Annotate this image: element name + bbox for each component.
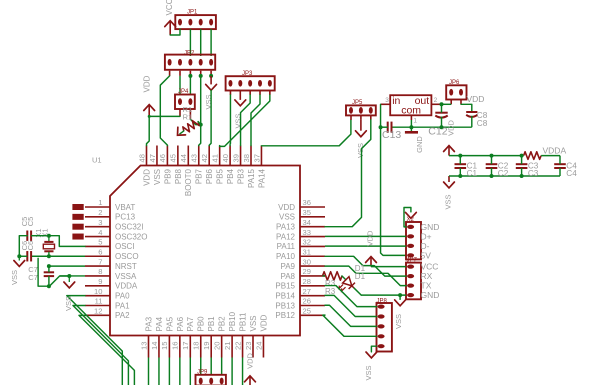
pin header JP8 (5-pin) body <box>377 303 392 352</box>
wire JP3 pin5 to U1 pin41 <box>220 95 270 146</box>
U1 pin 4 (OSC32O) stub + number + name <box>85 236 110 238</box>
svg-text:JP4: JP4 <box>178 89 189 95</box>
U1 pin 31 (PA10) stub + number + name <box>300 255 325 257</box>
resistor R1 (BOOT0 pulldown, tilted) <box>183 121 199 132</box>
svg-text:VDDA: VDDA <box>115 282 138 291</box>
jumper header JP4 (2-pin, BOOT select) body <box>175 95 195 110</box>
svg-text:34: 34 <box>303 218 311 227</box>
svg-text:5V: 5V <box>421 250 432 260</box>
svg-text:PB9: PB9 <box>163 168 172 184</box>
svg-text:11: 11 <box>95 297 103 306</box>
svg-text:PB8: PB8 <box>174 168 183 184</box>
junction OSCI / X1 / C5 <box>47 234 51 238</box>
U1 pin 30 (PA9) stub + number + name <box>300 265 325 267</box>
VDDA rail after L1 to C4 <box>541 155 560 157</box>
junction on JP2 pin5 net <box>209 74 213 78</box>
svg-text:C1: C1 <box>467 169 478 178</box>
junction com/ground rail <box>409 125 413 129</box>
U1 pin 20 (PB2) stub + number + name <box>221 336 223 358</box>
U1 pin 37 (PA14) stub + number + name <box>260 146 262 166</box>
svg-text:PA14: PA14 <box>257 168 266 188</box>
svg-text:GND: GND <box>415 136 424 153</box>
capacitor C7 <box>44 271 54 273</box>
wire VDD arrow to JP7 VCC <box>371 266 406 268</box>
svg-text:GND: GND <box>421 290 440 300</box>
svg-text:44: 44 <box>179 154 188 162</box>
U1 pin 42 (PB6) stub + number + name <box>208 146 210 166</box>
svg-text:VSS: VSS <box>356 143 365 158</box>
VDD supply arrow bottom <box>245 376 256 382</box>
svg-text:41: 41 <box>210 154 219 162</box>
wire JP3 pin3 to U1 pin39 <box>241 95 251 146</box>
VSS ground arrow at filter bank <box>444 182 455 188</box>
ground rail under regulator <box>392 126 472 128</box>
junction NRST / C7 <box>47 264 51 268</box>
U1 pin 24 (VDD) stub + number + name <box>262 336 264 358</box>
pin header JP3 (5-pin) body <box>226 76 275 90</box>
jumper header JP6 (2-pin, VDD select) body <box>446 85 466 99</box>
svg-text:12: 12 <box>94 307 102 316</box>
svg-text:OSC32O: OSC32O <box>115 232 147 241</box>
wire U1 pin32 (PA11) to USB D- <box>325 245 406 247</box>
svg-text:JP6: JP6 <box>449 80 460 86</box>
svg-text:37: 37 <box>252 154 261 162</box>
svg-text:7: 7 <box>98 257 102 266</box>
wire JP1 pin3 - JP2 pin4 <box>200 29 202 56</box>
U1 pin 21 (PB10) stub + number + name <box>231 336 233 358</box>
svg-text:PA3: PA3 <box>144 316 153 331</box>
svg-text:PA13: PA13 <box>276 223 296 232</box>
svg-text:PB12: PB12 <box>275 311 295 320</box>
svg-text:19: 19 <box>202 342 211 350</box>
svg-text:PB10: PB10 <box>228 311 237 331</box>
svg-text:JP9: JP9 <box>197 370 208 376</box>
U1 pin 3 (OSC32I) stub + number + name <box>85 226 110 228</box>
U1 pin 35 (VSS) stub + number + name <box>300 216 325 218</box>
svg-text:VSS: VSS <box>443 194 452 209</box>
junction crystal / OSCO <box>47 254 51 258</box>
U1 pin 38 (PA15) stub + number + name <box>250 146 252 166</box>
svg-text:21: 21 <box>223 342 232 350</box>
svg-text:VSS: VSS <box>10 270 19 285</box>
svg-text:VDD: VDD <box>467 94 485 104</box>
capacitor C13 (input cap) <box>387 122 389 133</box>
capacitor C8 <box>466 111 477 113</box>
U1 pin 40 (PB4) stub + number + name <box>229 146 231 166</box>
C12 bottom lead <box>441 117 443 128</box>
JP6 pin leads <box>450 100 452 105</box>
svg-text:VCC: VCC <box>421 262 439 272</box>
svg-text:VSS: VSS <box>249 315 258 331</box>
svg-text:PB14: PB14 <box>275 291 295 300</box>
svg-text:PA12: PA12 <box>276 232 296 241</box>
wires U1 pins 18-20 into bottom header JP9 <box>200 358 202 375</box>
svg-text:27: 27 <box>303 287 311 296</box>
wire U1 pin31 (PA10/RX) to JP7 RX <box>325 256 406 276</box>
U1 pin 36 (VDD) stub + number + name <box>300 206 325 208</box>
VCC supply arrow <box>165 21 176 27</box>
U1 pin 46 (PB9) stub + number + name <box>166 146 168 166</box>
U1 pin 43 (PB7) stub + number + name <box>198 146 200 166</box>
svg-text:23: 23 <box>244 342 253 350</box>
GND symbol bar <box>405 131 418 134</box>
wire JP2 pin2 to jumper JP4 pin1 <box>179 76 181 95</box>
svg-text:C4: C4 <box>566 169 577 178</box>
U1 pin 25 (PB12) stub + number + name <box>300 314 325 316</box>
svg-text:24: 24 <box>254 342 263 350</box>
svg-text:VDD: VDD <box>278 203 295 212</box>
solid pad marks on U1 pins 1-4 <box>73 205 83 210</box>
svg-text:D1: D1 <box>355 272 366 281</box>
wire VCC to JP1 pin 1 <box>170 29 180 35</box>
wire U1 pin26 (PB13) to JP8 pin3 <box>325 305 377 326</box>
junction VSSA <box>67 274 71 278</box>
C2 bottom junction <box>490 174 494 178</box>
svg-text:NRST: NRST <box>115 262 137 271</box>
svg-text:PB6: PB6 <box>205 168 214 184</box>
svg-text:VSS: VSS <box>64 296 73 311</box>
U1 pin 13 (PA3) stub + number + name <box>148 336 150 358</box>
svg-text:6: 6 <box>98 247 102 256</box>
svg-text:PA7: PA7 <box>186 316 195 331</box>
C3 top junction <box>520 154 524 158</box>
svg-text:39: 39 <box>231 154 240 162</box>
wire JP2 pin3 to jumper JP4 pin2 <box>189 76 191 95</box>
C6 left lead <box>19 255 27 257</box>
GND arrow above X2 <box>410 208 412 213</box>
wire U1 pin8 (VSSA) line <box>60 275 85 277</box>
wire JP4 pin2 to BOOT0 junction <box>190 119 200 124</box>
U1 pin 10 (PA0) stub + number + name <box>85 295 110 297</box>
wire U1 pin11 (PA1) down-left loop <box>73 306 128 385</box>
junction C7 bottom <box>47 284 51 288</box>
wire U1 pin10 (PA0) down-left loop <box>67 296 123 385</box>
U1 pin 29 (PA8) stub + number + name <box>300 275 325 277</box>
svg-text:16: 16 <box>171 342 180 350</box>
U1 pin 33 (PA12) stub + number + name <box>300 236 325 238</box>
svg-text:3: 3 <box>385 97 389 104</box>
svg-text:29: 29 <box>303 267 311 276</box>
svg-text:VSS: VSS <box>364 365 373 380</box>
junction C12 bottom / ground rail <box>440 125 444 129</box>
svg-text:18: 18 <box>192 342 201 350</box>
svg-text:10: 10 <box>94 287 102 296</box>
U1 pin 41 (PB5) stub + number + name <box>219 146 221 166</box>
crystal X1 <box>48 236 50 242</box>
junction C5/C6/VSS <box>17 254 21 258</box>
JP4 pin leads <box>179 109 181 116</box>
svg-text:3: 3 <box>98 218 102 227</box>
capacitor C3 <box>516 163 528 165</box>
wire U1 pin6 (OSCO) line <box>31 255 85 257</box>
svg-text:42: 42 <box>200 154 209 162</box>
svg-text:C13: C13 <box>382 129 401 141</box>
svg-text:48: 48 <box>137 154 146 162</box>
pin header JP9 (3-pin, bottom edge) body <box>196 375 226 385</box>
svg-text:VDD: VDD <box>365 230 374 246</box>
resistor R3 on U1 pin29 (PA8) <box>323 272 343 280</box>
svg-text:JP1: JP1 <box>187 10 198 16</box>
wire out node to JP6 pin1 <box>442 103 452 105</box>
U1 pin 47 (VSS) stub + number + name <box>156 146 158 166</box>
GND arrow below JP7 GND junction <box>399 295 401 300</box>
wire U1 pin12 (PA2) down-left loop <box>79 315 134 385</box>
svg-text:5: 5 <box>98 238 102 247</box>
VDD supply arrow at filter bank <box>444 146 455 152</box>
inductor/resistor L1 in VDDA rail <box>524 152 542 160</box>
wire LED D1 to GND line <box>354 288 361 295</box>
svg-text:36: 36 <box>303 198 311 207</box>
junction on JP2 pin4 net <box>199 74 203 78</box>
U1 pin 1 (VBAT) stub + number + name <box>85 206 110 208</box>
U1 pin 9 (VDDA) stub + number + name <box>85 285 110 287</box>
svg-text:PB1: PB1 <box>207 316 216 332</box>
svg-text:PB7: PB7 <box>195 168 204 184</box>
U1 pin 8 (VSSA) stub + number + name <box>85 275 110 277</box>
svg-text:4: 4 <box>98 228 102 237</box>
IC1 pin 3 (in) lead <box>381 103 391 105</box>
wire JP6 pin2 to VDD / C8 <box>461 104 472 111</box>
U1 pin 26 (PB13) stub + number + name <box>300 305 325 307</box>
svg-text:JP7: JP7 <box>407 257 418 263</box>
svg-text:TX: TX <box>421 281 432 291</box>
svg-text:PB15: PB15 <box>275 282 295 291</box>
svg-text:26: 26 <box>303 297 311 306</box>
svg-text:2: 2 <box>434 97 438 104</box>
U1 pin 5 (OSCI) stub + number + name <box>85 245 110 247</box>
svg-text:JP8: JP8 <box>377 298 388 304</box>
VSS ground arrow below JP8 <box>366 352 377 358</box>
U1 pin 28 (PB15) stub + number + name <box>300 285 325 287</box>
svg-text:C7: C7 <box>28 273 38 282</box>
wire JP1 pin2 - JP2 pin3 <box>189 29 191 56</box>
C3 bottom junction <box>520 174 524 178</box>
svg-text:PA1: PA1 <box>115 301 130 310</box>
U1 pin 18 (PB0) stub + number + name <box>200 336 202 358</box>
VSS ground arrow below JP2 pin5 <box>210 76 212 85</box>
svg-text:R1: R1 <box>183 112 193 121</box>
C12 top lead <box>441 104 443 112</box>
wire JP3 pin1 to U1 pin40 <box>229 95 231 146</box>
svg-text:47: 47 <box>148 154 157 162</box>
svg-text:8: 8 <box>98 267 102 276</box>
svg-text:PB3: PB3 <box>236 168 245 184</box>
svg-text:40: 40 <box>221 154 230 162</box>
U1 pin 17 (PA7) stub + number + name <box>189 336 191 358</box>
svg-text:VSS: VSS <box>153 169 162 185</box>
svg-text:32: 32 <box>303 238 311 247</box>
svg-text:PA5: PA5 <box>165 316 174 331</box>
svg-text:C6: C6 <box>26 241 35 251</box>
svg-text:PB4: PB4 <box>226 168 235 184</box>
junction on JP2 pin3 net <box>188 74 192 78</box>
IC1 pin 2 (out) lead <box>431 103 441 105</box>
wire com to GND symbol <box>410 120 412 131</box>
U1 pin 23 (VSS) stub + number + name <box>252 336 254 358</box>
svg-text:17: 17 <box>181 342 190 350</box>
svg-text:2: 2 <box>98 208 102 217</box>
svg-text:22: 22 <box>233 342 242 350</box>
svg-text:OSC32I: OSC32I <box>115 223 143 232</box>
svg-text:OSCO: OSCO <box>115 252 139 261</box>
wire U1 pin28 (PB15) to JP8 pin1 <box>325 286 377 307</box>
svg-text:VSSA: VSSA <box>115 272 137 281</box>
svg-text:14: 14 <box>150 342 159 350</box>
wire R1 to VSS arrow (diagonal) <box>180 131 184 134</box>
svg-text:20: 20 <box>212 342 221 350</box>
svg-text:U1: U1 <box>92 156 102 165</box>
pin header JP2 (5-pin) body <box>165 55 215 70</box>
wire VDD to JP4 pin1 and to U1 pin48 <box>147 116 181 145</box>
svg-text:PA0: PA0 <box>115 291 130 300</box>
svg-text:PA15: PA15 <box>247 168 256 188</box>
capacitor C1 <box>455 163 467 165</box>
svg-text:1: 1 <box>98 198 102 207</box>
svg-text:VCC: VCC <box>165 0 174 15</box>
svg-text:45: 45 <box>169 154 178 162</box>
wire U1 pin27 (PB14) to JP8 pin2 <box>325 295 377 316</box>
wire JP1 pin4 - JP2 pin5 <box>210 29 212 56</box>
wire JP7 GND line <box>361 294 406 296</box>
C2 top junction <box>490 154 494 158</box>
svg-text:PA8: PA8 <box>280 272 295 281</box>
C1 bottom junction <box>458 174 462 178</box>
U1 pin 44 (BOOT0) stub + number + name <box>187 146 189 166</box>
U1 pin 15 (PA5) stub + number + name <box>168 336 170 358</box>
VSS ground arrow below VSSA junction <box>68 276 70 282</box>
capacitor C2 <box>486 163 498 165</box>
JP3 pin leads <box>229 91 231 96</box>
wire JP5 pin3 (SWDIO) to U1 pin34 (PA13) <box>325 120 371 227</box>
svg-text:VDD: VDD <box>446 120 455 136</box>
svg-text:VDD: VDD <box>259 314 268 331</box>
microcontroller U1 (STM32, QFP48) body outline <box>110 166 300 336</box>
svg-text:VDDA: VDDA <box>543 145 567 155</box>
U1 pin 32 (PA11) stub + number + name <box>300 245 325 247</box>
svg-text:JP2: JP2 <box>184 51 195 57</box>
junction C13 / 5V line <box>379 125 383 129</box>
U1 pin 34 (PA13) stub + number + name <box>300 226 325 228</box>
svg-text:PC13: PC13 <box>115 213 136 222</box>
svg-text:13: 13 <box>139 342 148 350</box>
wire R3 to LED D1 <box>342 276 346 280</box>
U1 pin 6 (OSCO) stub + number + name <box>85 255 110 257</box>
VDDA top rail <box>449 155 524 157</box>
VSS ground arrow at crystal caps <box>18 256 20 260</box>
svg-text:35: 35 <box>303 208 311 217</box>
wire JP2 pin1 to U1 pin46 <box>160 76 169 146</box>
svg-text:PA2: PA2 <box>115 311 130 320</box>
svg-text:C8: C8 <box>477 119 488 128</box>
svg-text:GND: GND <box>421 222 440 232</box>
wire JP2 pin4 (BOOT0 net) to U1 pin43 <box>199 76 201 146</box>
VSS ground arrow below JP3 pin2 <box>239 95 241 100</box>
wire U1 pin30 (PA9/TX) to JP7 TX <box>325 266 406 286</box>
svg-text:C2: C2 <box>498 169 509 178</box>
wire U1 pin37 (PA14/SWCLK) to JP5 pin1 <box>261 120 350 146</box>
U1 pin 16 (PA6) stub + number + name <box>179 336 181 358</box>
wires U1 pins 21-22 going down <box>231 358 233 385</box>
LED D1 (diagonal) <box>338 276 358 296</box>
wire U1 pin7 (NRST) to C7 <box>49 265 85 267</box>
svg-text:D-: D- <box>421 241 430 251</box>
U1 pin 22 (PB11) stub + number + name <box>242 336 244 358</box>
wire R1 to BOOT0 junction <box>198 122 201 125</box>
IC1 pin 1 (com) lead <box>410 115 412 120</box>
U1 pin 27 (PB14) stub + number + name <box>300 295 325 297</box>
U1 pin 48 (VDD) stub + number + name <box>146 146 148 166</box>
junction out node <box>440 102 444 106</box>
svg-text:28: 28 <box>303 277 311 286</box>
C5 leads <box>31 235 47 237</box>
C8 bottom lead to ground rail <box>471 116 473 127</box>
U1 pin 2 (PC13) stub + number + name <box>85 216 110 218</box>
junction BOOT0 / R1 <box>199 123 203 127</box>
svg-text:PB2: PB2 <box>218 316 227 332</box>
U1 pin 14 (PA4) stub + number + name <box>158 336 160 358</box>
svg-text:BOOT0: BOOT0 <box>184 168 193 196</box>
pin header JP1 (4-pin) body <box>175 15 216 29</box>
wire C7 bottom to VSSA net <box>49 276 69 286</box>
junction JP7 GND <box>398 293 402 297</box>
svg-text:PA6: PA6 <box>176 316 185 331</box>
svg-text:1: 1 <box>413 117 417 124</box>
wire U1 pin5 (OSCI) to crystal <box>49 236 85 247</box>
svg-text:43: 43 <box>190 154 199 162</box>
GND hook wire above X2 <box>404 208 411 227</box>
voltage regulator IC1 body <box>390 95 431 115</box>
svg-text:VDD: VDD <box>245 353 254 369</box>
svg-text:RX: RX <box>421 271 433 281</box>
stub wire from C7 junction to left <box>38 258 49 286</box>
wire regulator in (5V) down to USB 5V pin <box>381 104 406 255</box>
svg-text:15: 15 <box>160 342 169 350</box>
svg-text:PA11: PA11 <box>277 242 296 251</box>
C13 left lead to 5V line <box>381 126 388 128</box>
pin header JP5 (3-pin SWD) body <box>346 105 376 115</box>
capacitor C6 <box>26 251 28 261</box>
svg-text:VDD: VDD <box>142 169 151 186</box>
svg-text:VDD: VDD <box>142 75 151 92</box>
svg-text:PB13: PB13 <box>275 301 295 310</box>
svg-text:PB11: PB11 <box>238 312 247 332</box>
svg-text:30: 30 <box>303 257 311 266</box>
wire JP8 pin5 to VSS arrow <box>371 346 376 352</box>
capacitor C12 (output cap) <box>435 112 447 114</box>
capacitor C5 <box>26 231 28 241</box>
svg-text:38: 38 <box>242 154 251 162</box>
junction VDD tee <box>148 115 151 118</box>
svg-text:PA9: PA9 <box>280 262 295 271</box>
U1 pin 19 (PB1) stub + number + name <box>210 336 212 358</box>
svg-text:PA4: PA4 <box>155 316 164 331</box>
VSS bottom rail <box>449 175 560 177</box>
svg-text:OSCI: OSCI <box>115 242 135 251</box>
svg-text:D+: D+ <box>421 231 432 241</box>
svg-text:PB5: PB5 <box>216 168 225 184</box>
svg-text:PB0: PB0 <box>197 316 206 332</box>
svg-text:JP5: JP5 <box>352 100 363 106</box>
U1 pin 11 (PA1) stub + number + name <box>85 305 110 307</box>
svg-text:JP3: JP3 <box>242 71 253 77</box>
svg-text:46: 46 <box>158 154 167 162</box>
VDD supply arrow <box>144 105 155 111</box>
wire JP2 pin5 to U1 pin42 <box>209 90 211 145</box>
pin header X2 (USB, 4-pin) body <box>406 222 421 259</box>
svg-text:VSS: VSS <box>279 213 295 222</box>
svg-text:25: 25 <box>303 307 311 316</box>
pin header JP7 (serial, 4-pin) body <box>406 263 421 300</box>
